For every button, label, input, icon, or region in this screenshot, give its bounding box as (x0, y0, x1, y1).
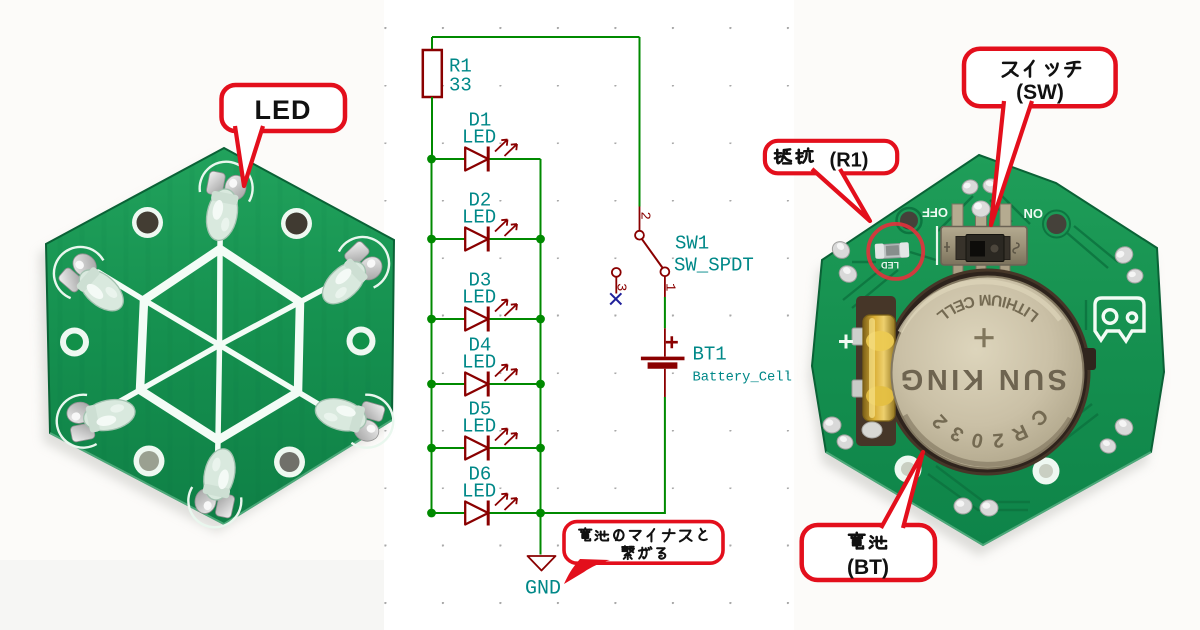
annotation circle around R1 chip (868, 224, 923, 279)
svg-text:(BT): (BT) (847, 556, 889, 579)
svg-text:LED: LED (462, 416, 496, 438)
ground symbol (528, 556, 556, 571)
wire: right bus (540, 159, 542, 513)
svg-text:SW1: SW1 (675, 233, 709, 255)
LED upper-right (306, 226, 400, 319)
callout: resistor (R1) (765, 141, 897, 221)
junction on left bus row 2 (427, 235, 436, 244)
svg-text:33: 33 (449, 75, 472, 97)
junction on right bus row 3 (536, 315, 545, 324)
svg-text:1: 1 (662, 283, 678, 291)
no-connect X on pin 3 (610, 293, 621, 304)
junction on left bus row 6 (427, 509, 436, 518)
callout: LED (left photo) (222, 85, 346, 186)
battery clip (gold) (852, 315, 895, 438)
right photo: PCB back side (794, 0, 1200, 630)
LED D2 (432, 190, 541, 252)
callout: switch (SW) (964, 49, 1116, 225)
LED D1 (432, 110, 541, 172)
junction on right bus row 2 (536, 235, 545, 244)
svg-text:LED: LED (462, 481, 496, 503)
wire: resistor top (431, 37, 433, 50)
svg-text:2: 2 (637, 212, 653, 220)
callout: battery (BT) (802, 452, 935, 580)
LED top (190, 157, 257, 245)
svg-text:(R1): (R1) (830, 150, 869, 172)
junction on right bus row 6 (536, 509, 545, 518)
LED D6 (432, 464, 664, 526)
PCB board (front, hexagonal) (46, 148, 394, 524)
junction on left bus row 5 (427, 444, 436, 453)
battery BT1 (641, 328, 792, 397)
junction on left bus row 1 (427, 155, 436, 164)
wire: left bus (431, 159, 433, 513)
svg-text:LED: LED (462, 207, 496, 229)
vias (897, 208, 922, 233)
svg-text:OFF: OFF (922, 205, 948, 220)
resistor R1 (423, 50, 442, 97)
copper traces (843, 194, 1118, 510)
wire: battery to D6 row (664, 397, 665, 513)
wire: resistor bottom to bus (431, 97, 433, 159)
svg-text:LED: LED (462, 287, 496, 309)
junction on right bus row 4 (536, 380, 545, 389)
svg-text:LED: LED (462, 127, 496, 149)
PCB board (back, hexagonal) (812, 155, 1164, 545)
wire: top rail down to switch (639, 37, 641, 207)
svg-text:LED: LED (462, 352, 496, 374)
LED lower-right (309, 381, 400, 454)
svg-text:SW_SPDT: SW_SPDT (674, 255, 754, 277)
left photo: PCB front side (0, 0, 394, 630)
junction on right bus row 5 (536, 444, 545, 453)
svg-text:Battery_Cell: Battery_Cell (693, 370, 792, 386)
battery BT (CR2032 coin cell) (892, 277, 1084, 469)
junction on left bus row 4 (427, 380, 436, 389)
solder joints (823, 178, 1144, 516)
LED upper-left (43, 236, 138, 328)
mounting holes (60, 207, 376, 478)
switch SW1 (SPDT) (612, 207, 754, 298)
wire: switch to battery (664, 297, 666, 328)
LED lower-left (52, 385, 140, 452)
LED D3 (432, 270, 541, 332)
battery holder (856, 269, 1096, 476)
slide switch SW (937, 201, 1027, 278)
silkscreen hexagram (98, 207, 341, 486)
LED D4 (432, 335, 541, 397)
svg-text:BT1: BT1 (693, 344, 727, 366)
svg-text:(SW): (SW) (1016, 81, 1064, 104)
svg-text:ON: ON (1024, 206, 1044, 221)
LED bottom (183, 444, 251, 533)
silkscreen mascot icon (1095, 298, 1144, 341)
chip resistor R1 on board (875, 242, 910, 259)
svg-text:LED: LED (880, 260, 899, 270)
LED D5 (432, 399, 541, 461)
junction on left bus row 3 (427, 315, 436, 324)
svg-text:GND: GND (525, 578, 561, 601)
svg-text:LED: LED (255, 95, 312, 125)
wire: V+ top rail (432, 36, 640, 38)
svg-text:SUN KING: SUN KING (897, 363, 1067, 395)
wire: GND stub (540, 513, 542, 555)
"+" silkscreen near clip (839, 335, 853, 349)
svg-text:3: 3 (613, 283, 629, 291)
callout: battery-minus note (schematic GND) (564, 522, 723, 584)
